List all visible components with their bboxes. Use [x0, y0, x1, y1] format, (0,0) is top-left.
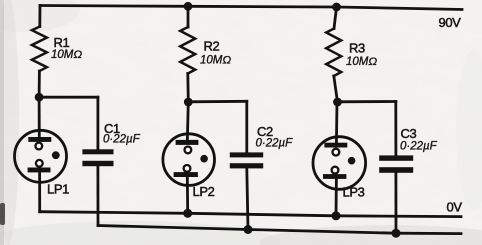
wire: C3 top lead — [394, 102, 397, 156]
neon lamp LP2 — [163, 134, 215, 186]
wire: LP3 top lead — [335, 102, 338, 144]
svg-text:R3: R3 — [349, 41, 365, 56]
capacitor C1 — [82, 149, 113, 166]
wire: C3 bottom lead — [394, 174, 397, 234]
junction node C3/lower bus — [392, 229, 401, 238]
junction node C2/lower bus — [244, 225, 253, 234]
wire: R3 bottom lead — [334, 76, 338, 102]
svg-text:C3: C3 — [401, 126, 417, 141]
wire: LP2 top lead — [187, 102, 188, 142]
svg-text:0V: 0V — [447, 200, 463, 215]
wire: LP1 bottom lead — [38, 170, 41, 212]
wire: R1 top lead — [38, 6, 41, 27]
resistor R3 — [326, 29, 341, 77]
resistor R2 — [180, 27, 195, 74]
svg-text:LP2: LP2 — [193, 184, 215, 199]
capacitor C3 — [379, 155, 413, 172]
wire: C2 bottom lead — [247, 168, 248, 230]
wire: LP1 top lead — [38, 97, 41, 139]
resistor R1 — [32, 27, 47, 72]
wire: C1 top lead — [97, 97, 100, 149]
svg-text:0·22µF: 0·22µF — [256, 138, 294, 150]
svg-text:10MΩ: 10MΩ — [51, 49, 82, 61]
neon lamp LP3 — [313, 137, 366, 190]
left edge dark smudge — [0, 203, 5, 225]
wire: LP2 bottom lead — [186, 175, 189, 213]
junction node R1/C1/LP1 — [35, 93, 44, 102]
left edge scan shadow — [0, 0, 4, 245]
wire: 0V rail — [40, 212, 461, 217]
wire: LP3 bottom lead — [335, 177, 338, 216]
junction node rail/R2 — [184, 2, 193, 11]
junction node R2/C2/LP2 — [184, 98, 193, 107]
svg-text:0·22µF: 0·22µF — [400, 141, 438, 153]
wire: node R2/C2/LP2 horizontal — [188, 100, 247, 103]
svg-text:R2: R2 — [204, 39, 220, 54]
svg-text:10MΩ: 10MΩ — [346, 56, 377, 68]
junction node R3/C3/LP3 — [333, 98, 342, 107]
junction node rail/R3 — [332, 3, 341, 12]
svg-text:10MΩ: 10MΩ — [200, 55, 231, 67]
wire: R2 bottom lead — [186, 74, 189, 103]
wire: R3 top lead — [334, 7, 337, 29]
svg-text:90V: 90V — [439, 15, 462, 30]
svg-text:LP3: LP3 — [343, 185, 365, 200]
wire: lower bus — [98, 226, 461, 234]
wire: top 90V rail — [40, 6, 462, 10]
junction node LP2/0V — [183, 209, 192, 218]
svg-text:0·22µF: 0·22µF — [103, 134, 141, 146]
wire: R1 bottom lead — [38, 71, 41, 97]
wire: R2 top lead — [187, 6, 190, 27]
wire: node R3/C3/LP3 horizontal — [338, 100, 396, 103]
junction node LP3/0V — [332, 211, 341, 220]
svg-text:LP1: LP1 — [47, 182, 69, 197]
wire: C2 top lead — [245, 101, 248, 152]
svg-text:R1: R1 — [54, 35, 70, 50]
wire: C1 bottom lead — [97, 166, 100, 226]
neon lamp LP1 — [15, 130, 67, 182]
wire: node R1/C1/LP1 horizontal — [39, 96, 98, 99]
capacitor C2 — [230, 152, 263, 168]
